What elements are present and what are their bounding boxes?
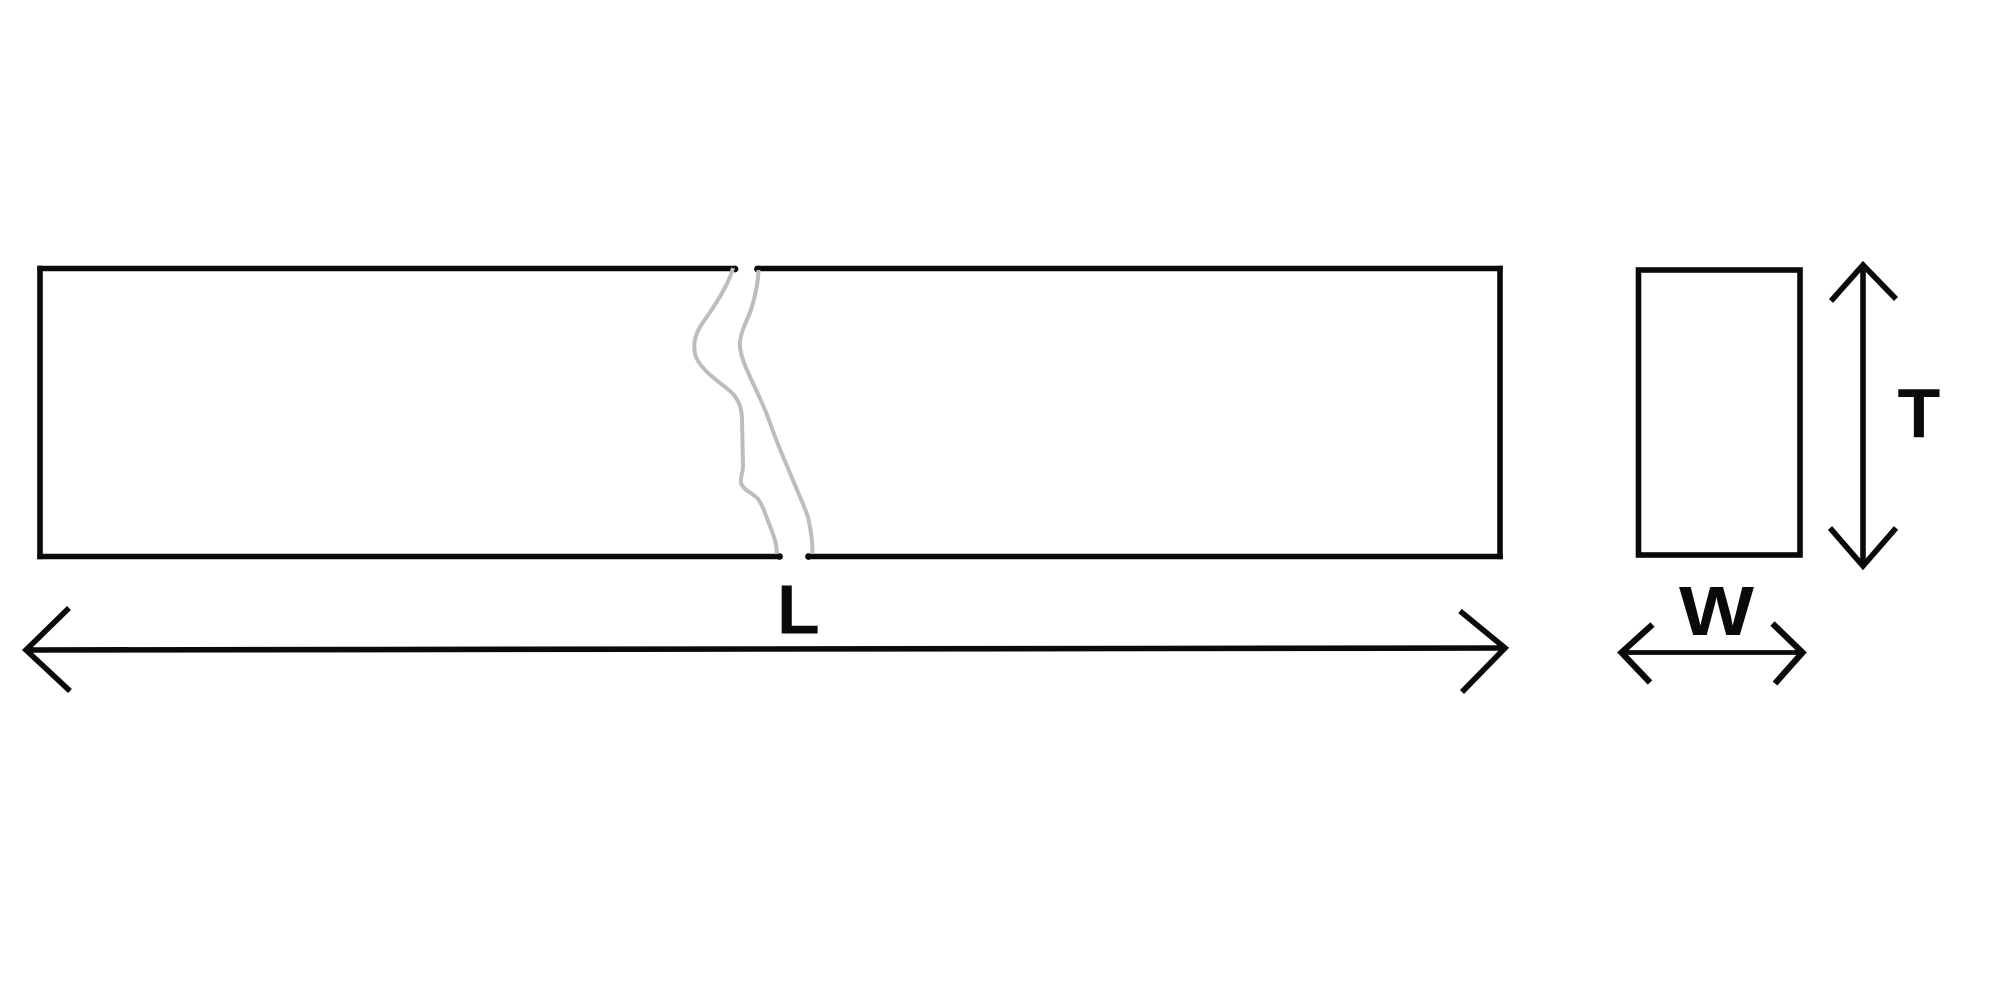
top edge gap rounded end left [732,266,739,273]
bottom edge gap rounded end right [805,553,812,560]
bottom edge gap rounded end left [776,553,783,560]
break line left (gray squiggle) [694,268,777,554]
dimension arrow L (double-headed horizontal) [26,608,1505,692]
bar front view: long rectangle with break gap [37,266,1503,560]
dimension arrow W (double-headed horizontal) [1622,624,1803,684]
T arrowhead top [1831,265,1896,301]
svg-text:W: W [1679,572,1754,650]
break line right (gray squiggle) [740,270,813,553]
wire: T arrow shaft [1860,265,1866,566]
W arrowhead left [1622,625,1653,683]
cross-section rectangle [1639,270,1801,555]
wire: W arrow shaft [1622,650,1803,655]
top edge gap rounded end right [754,266,761,273]
wire: left edge [37,266,43,560]
svg-text:T: T [1898,374,1941,452]
L arrowhead left [26,608,70,691]
wire: right edge [1497,266,1503,560]
wire: bottom edge left segment [37,554,779,560]
wire: bottom edge right segment [809,554,1503,560]
wire: L arrow shaft [26,648,1505,650]
W arrowhead right [1773,624,1803,684]
wire: top edge left segment [37,266,735,272]
T arrowhead bottom [1830,528,1896,566]
dimension arrow T (double-headed vertical) [1830,265,1896,566]
L arrowhead right [1460,611,1505,692]
svg-text:L: L [777,571,820,649]
wire: top edge right segment [757,266,1503,272]
